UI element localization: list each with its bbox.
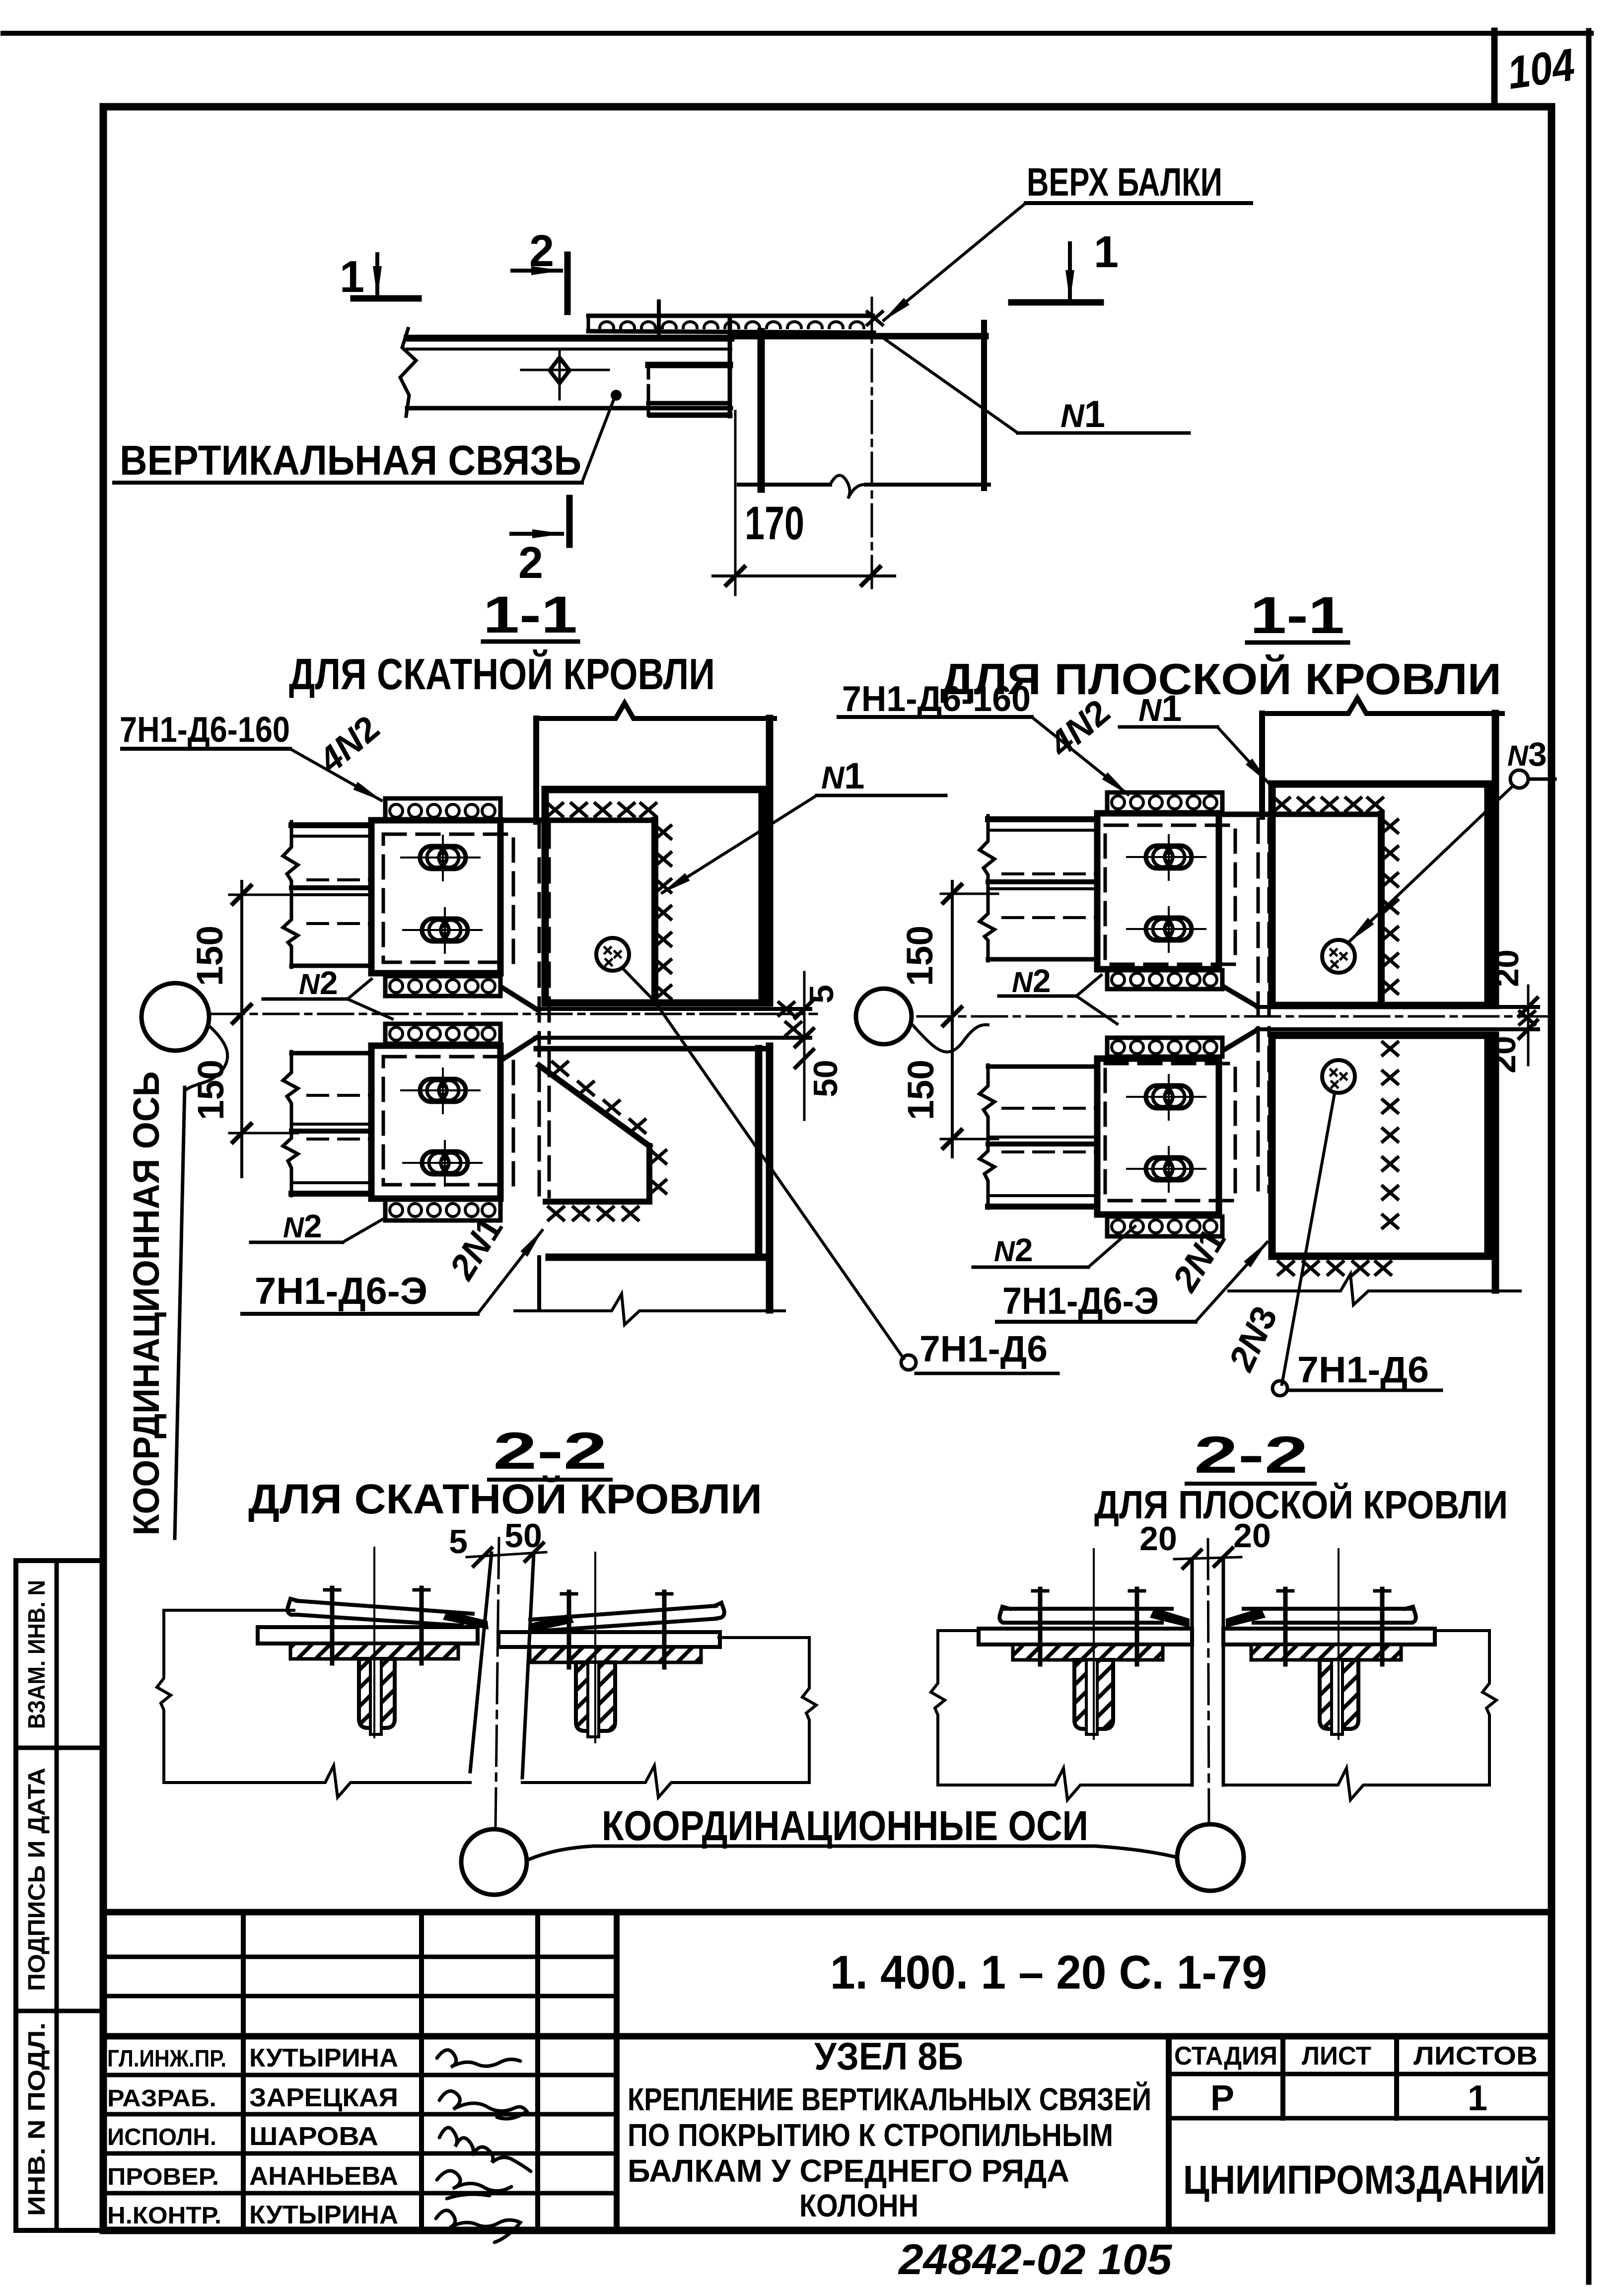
- channel top flange thin R: [988, 829, 1097, 832]
- channel bottom flange thin R: [988, 1194, 1097, 1197]
- beam left edge dashed pair R: [1258, 819, 1269, 1192]
- svg-text:ПРОВЕР.: ПРОВЕР.: [107, 2164, 219, 2190]
- left stamp strip divider h1: [16, 1746, 103, 1750]
- beam left edge upper solid R: [1259, 714, 1265, 817]
- dim line left 150: [240, 881, 243, 1177]
- signature 3: [439, 2128, 531, 2171]
- beam left edge upper solid: [533, 718, 539, 822]
- sheet right outer edge: [1586, 31, 1592, 2282]
- N2 lower underline R: [973, 1266, 1088, 1269]
- svg-text:150: 150: [189, 926, 230, 986]
- unit inner dashed rect low R: [1105, 1064, 1235, 1201]
- vertikalnaya svyaz underline: [114, 481, 582, 485]
- gusset lower vertical: [646, 1146, 652, 1201]
- top pad: [385, 798, 500, 819]
- center axis line P: [1208, 1539, 1209, 1823]
- weld xx column along gusset edge low R: [1383, 1042, 1398, 1228]
- verkh balki underline: [1026, 201, 1251, 205]
- svg-text:7Н1-Д6: 7Н1-Д6: [919, 1328, 1048, 1369]
- svg-text:N2: N2: [283, 1208, 322, 1244]
- channel left cut low: [283, 1052, 298, 1196]
- svg-text:ИСПОЛН.: ИСПОЛН.: [107, 2124, 216, 2150]
- 7N1-D6-E leader: [478, 1230, 542, 1314]
- svg-text:СТАДИЯ: СТАДИЯ: [1174, 2042, 1277, 2071]
- bottom plate r: [498, 1632, 720, 1647]
- weld circle leader to corner: [622, 968, 654, 1001]
- bottom break line R: [1229, 1274, 1520, 1305]
- svg-text:N2: N2: [1012, 962, 1051, 999]
- channel mid flange thick: [291, 885, 371, 890]
- tick 50 bottom: [795, 1050, 813, 1068]
- svg-text:N1: N1: [1060, 393, 1105, 435]
- rib centerline Pr: [1338, 1549, 1340, 1739]
- bearing pad hatched: [290, 1644, 458, 1659]
- T-rib stem hatched: [359, 1659, 395, 1728]
- unit block rect R: [1097, 813, 1219, 969]
- N2 lower underline: [251, 1241, 343, 1244]
- top pad scallops: [390, 804, 495, 817]
- channel mid flange thin low: [291, 1123, 371, 1126]
- svg-text:20: 20: [1233, 1517, 1271, 1555]
- 7N1-D6-160 underline right: [839, 715, 1032, 719]
- svg-text:ДЛЯ СКАТНОЙ КРОВЛИ: ДЛЯ СКАТНОЙ КРОВЛИ: [248, 1476, 762, 1522]
- left end vertical with break: [157, 1610, 171, 1783]
- T-rib stem hatched Pr: [1320, 1660, 1358, 1729]
- svg-text:Н.КОНТР.: Н.КОНТР.: [107, 2203, 221, 2229]
- svg-text:20: 20: [1488, 949, 1526, 987]
- gusset top edge line: [499, 818, 655, 823]
- long leader to 7N1-D6 label: [654, 1001, 904, 1358]
- svg-text:ЛИСТ: ЛИСТ: [1302, 2042, 1371, 2071]
- channel bottom line: [291, 964, 371, 968]
- 7N1-D6 pointer circle: [901, 1355, 916, 1370]
- svg-text:150: 150: [899, 926, 940, 986]
- center gap cut line left: [470, 1553, 492, 1772]
- gusset tongue mid: [648, 401, 730, 406]
- bolt b top tick: [414, 1588, 429, 1592]
- beam web bottom line R: [1257, 1027, 1538, 1031]
- right ext top line P: [1435, 1629, 1489, 1632]
- gusset top edge line R: [1222, 812, 1381, 817]
- leader from N3 lower circle to bottom label: [1282, 1093, 1335, 1384]
- svg-text:1: 1: [1094, 227, 1119, 277]
- bolt line d: [662, 1592, 667, 1667]
- svg-text:ПО ПОКРЫТИЮ К СТРОПИЛЬНЫМ: ПО ПОКРЫТИЮ К СТРОПИЛЬНЫМ: [628, 2117, 1113, 2153]
- channel mid flange thin: [291, 893, 371, 896]
- svg-text:ЛИСТОВ: ЛИСТОВ: [1413, 2042, 1538, 2071]
- column bottom line right part: [866, 483, 989, 487]
- column left edge: [758, 332, 765, 489]
- bolt Pa top tick: [1033, 1589, 1048, 1593]
- LOWER PLATE R: [1272, 1035, 1488, 1256]
- lower plate bottom edge: [549, 1254, 767, 1261]
- N1 left view leader: [662, 795, 817, 893]
- title block mid line: [103, 2033, 1552, 2040]
- 7N1-D6-160 leader left: [290, 749, 381, 800]
- left stamp strip box: [16, 1561, 103, 2230]
- gusset tongue left edge solid: [647, 387, 650, 415]
- bottom plate P: [979, 1629, 1192, 1644]
- 7N1-D6-160 underline left: [122, 747, 290, 751]
- channel hidden dash Ra: [1003, 872, 1097, 875]
- N2 lower leader R: [1088, 1226, 1135, 1267]
- right end vertical with break P: [1483, 1631, 1496, 1785]
- title block col line 3: [535, 1912, 540, 2230]
- bolt slot low lower R: [1127, 1147, 1205, 1192]
- ext line top R: [941, 893, 998, 895]
- bolt Pd top tick: [1375, 1589, 1390, 1593]
- tick 5 bottom: [795, 1029, 813, 1047]
- unit block rect low R: [1097, 1059, 1219, 1215]
- svg-text:ПОДПИСЬ И ДАТА: ПОДПИСЬ И ДАТА: [24, 1768, 50, 1991]
- N2 upper leader a: [348, 979, 371, 999]
- title block col line 1: [241, 1912, 246, 2230]
- ext line top: [229, 894, 298, 896]
- title block top line: [103, 1909, 1552, 1916]
- beam right edge lower R: [1492, 1035, 1499, 1290]
- dim tick 5: [474, 1548, 492, 1566]
- cover plate left hook P: [999, 1607, 1010, 1623]
- channel mid flange thin R: [988, 887, 1097, 890]
- channel left cut low R: [980, 1065, 994, 1208]
- N2 upper underline R: [999, 995, 1076, 998]
- cover plate right hook r: [715, 1603, 724, 1619]
- tick 20 top R: [1519, 998, 1537, 1016]
- main axis dash-dot: [209, 1013, 817, 1015]
- cover plate left hook: [287, 1599, 298, 1615]
- section marker 2 bottom: arrow: [511, 532, 562, 536]
- axis circle 2-2L: [461, 1829, 527, 1895]
- T-rib stem hatched r: [576, 1662, 615, 1731]
- svg-text:N1: N1: [821, 755, 864, 796]
- vertikalnaya svyaz leader: [582, 397, 615, 483]
- sheet top edge line: [3, 31, 1591, 36]
- channel mid flange thick low: [291, 1129, 371, 1134]
- weld x along bevel: [553, 1062, 645, 1133]
- title block stadia header underline: [1169, 2072, 1552, 2076]
- web bend upper R: [1224, 987, 1258, 1007]
- cover plate top line: [297, 1601, 473, 1614]
- brace bar bottom edge: [407, 406, 731, 411]
- svg-text:50: 50: [807, 1060, 845, 1097]
- svg-text:КУТЫРИНА: КУТЫРИНА: [249, 2044, 398, 2073]
- deck strip left cap: [587, 316, 590, 331]
- dim connect line: [467, 1552, 546, 1557]
- svg-text:N2: N2: [299, 964, 338, 1001]
- dim 20-20 vertical line R: [1527, 986, 1530, 1065]
- channel hidden dash a: [308, 878, 371, 881]
- tick 150 axis: [233, 1005, 251, 1023]
- section marker 1 right: arrow: [1068, 243, 1072, 300]
- N2 upper leader Rb: [1076, 996, 1117, 1024]
- signature 5: [436, 2211, 520, 2242]
- bolt c top tick: [562, 1592, 576, 1596]
- top pad R: [1107, 792, 1222, 812]
- svg-text:1-1: 1-1: [483, 586, 577, 644]
- signature 1: [437, 2050, 520, 2067]
- koordinatsionnye osi underline: [594, 1845, 1095, 1848]
- dim 170 tick right: [862, 567, 880, 585]
- svg-text:ИНВ. N ПОДЛ.: ИНВ. N ПОДЛ.: [24, 2022, 50, 2216]
- left ext top line P: [938, 1629, 979, 1632]
- ext line bottom R: [941, 1138, 998, 1141]
- bolt diamond symbol: [550, 357, 569, 383]
- channel mid flange thick R: [988, 879, 1097, 884]
- channel mid flange thick low R: [988, 1142, 1097, 1146]
- gusset tongue bottom: [650, 413, 730, 418]
- channel top flange thick R: [988, 816, 1097, 822]
- bottom pad: [385, 976, 500, 996]
- top pad low scallops: [390, 1027, 495, 1040]
- N2 upper leader Ra: [1076, 975, 1101, 996]
- weld xx column along gusset edge R: [1383, 820, 1398, 994]
- svg-text:50: 50: [504, 1517, 542, 1555]
- verkh balki leader: [884, 203, 1026, 320]
- svg-text:2: 2: [529, 226, 554, 276]
- title block col line 4: [614, 1912, 620, 2230]
- left end vertical with break P: [931, 1631, 945, 1785]
- right ext top line: [719, 1636, 809, 1639]
- bolt slot upper R: [1127, 835, 1205, 880]
- 7N1-D6 pointer circle R: [1272, 1381, 1287, 1396]
- title 1-1 left underline: [483, 640, 578, 644]
- cover plate right bent tip: [443, 1611, 489, 1630]
- bolt slot upper: [401, 836, 480, 880]
- bolt slot low lower: [403, 1141, 482, 1186]
- unit block rect: [371, 820, 500, 973]
- column top / beam top edge: [731, 333, 986, 340]
- weld x at web right end R: [1520, 1011, 1535, 1024]
- svg-text:1: 1: [1468, 2078, 1487, 2118]
- tick 5 top: [795, 1000, 813, 1018]
- main axis dash-dot R: [918, 1015, 1550, 1018]
- brace bar top inner line: [407, 348, 731, 351]
- beam web below plate left: [537, 1257, 541, 1310]
- svg-text:N3: N3: [1507, 735, 1547, 773]
- bottom pad scallops R: [1112, 973, 1217, 986]
- title 2-2 left underline: [489, 1478, 611, 1482]
- svg-text:ШАРОВА: ШАРОВА: [249, 2122, 378, 2151]
- column bottom break squiggle: [830, 475, 866, 499]
- top pad low: [385, 1024, 500, 1044]
- 7N1-D6-E underline R: [997, 1320, 1196, 1324]
- channel bottom flange thick: [291, 1191, 371, 1197]
- channel mid flange thin low R: [988, 1136, 1097, 1139]
- brace bar top edge: [407, 335, 731, 342]
- channel top flange thick: [291, 822, 371, 828]
- bottom line right with zigzag P: [1226, 1768, 1489, 1800]
- weld xx column along gusset edge: [656, 826, 671, 999]
- N2 upper underline: [263, 998, 348, 1001]
- title block stamp col line 5: [1166, 2036, 1172, 2230]
- svg-text:АНАНЬЕВА: АНАНЬЕВА: [249, 2162, 398, 2191]
- tick 20 bottom R: [1519, 1020, 1537, 1038]
- bearing plate N1 upper R: [1272, 784, 1488, 1005]
- bottom pad R: [1107, 970, 1222, 989]
- axis circle 2-2P: [1177, 1824, 1244, 1891]
- signature 2: [439, 2091, 527, 2119]
- channel hidden dash Rd: [1003, 1107, 1097, 1110]
- 7N1-D6 underline R: [1287, 1389, 1441, 1392]
- tick 150 axis R: [943, 1007, 961, 1025]
- deck scallops: [600, 322, 864, 328]
- svg-text:КУТЫРИНА: КУТЫРИНА: [249, 2201, 398, 2229]
- tick 150 bottom: [233, 1124, 251, 1142]
- beam top edge with break R: [1262, 698, 1502, 714]
- left stamp strip divider h2: [16, 2009, 103, 2013]
- bolt line b: [420, 1588, 424, 1663]
- bolt a top tick: [325, 1588, 340, 1592]
- N3 label circle: [1510, 770, 1528, 788]
- axis circle squiggle leader: [187, 1025, 227, 1089]
- weld circle symbol N3 upper: [1322, 940, 1355, 973]
- cover plate bottom line r: [539, 1619, 716, 1631]
- svg-text:ВЗАМ. ИНВ. N: ВЗАМ. ИНВ. N: [24, 1580, 50, 1729]
- title block row line b: [103, 1994, 617, 1999]
- channel top flange thin: [291, 835, 371, 838]
- bottom line left with zigzag P: [938, 1768, 1189, 1800]
- title block name row 4 line: [103, 2191, 617, 2196]
- center gap cut line right P: [1222, 1557, 1225, 1785]
- svg-text:ЗАРЕЦКАЯ: ЗАРЕЦКАЯ: [249, 2083, 398, 2112]
- svg-text:N2: N2: [994, 1231, 1033, 1268]
- column axis dash-dot: [871, 298, 873, 595]
- bolt d top tick: [657, 1592, 672, 1596]
- title 1-1 right underline: [1247, 641, 1348, 645]
- svg-text:2-2: 2-2: [493, 1422, 607, 1480]
- section marker 2 top: bar: [565, 255, 571, 312]
- bearing pad hatched Pr: [1251, 1644, 1401, 1660]
- gusset lower bottom: [546, 1199, 649, 1205]
- brace bar right end cap: [728, 318, 732, 416]
- weld x marks at web right end: [779, 1002, 794, 1015]
- title block stadia col line 7: [1394, 2036, 1399, 2118]
- svg-text:1: 1: [340, 252, 364, 302]
- rib centerline r: [594, 1553, 596, 1742]
- channel hidden dash Rb: [1003, 916, 1097, 919]
- cover plate bottom line P: [1004, 1621, 1162, 1625]
- cover plate left bent tip r: [528, 1614, 574, 1633]
- bottom line right with zigzag: [522, 1766, 809, 1797]
- cover plate bottom line: [297, 1615, 462, 1626]
- brace bar left break zigzag: [400, 329, 416, 416]
- svg-text:150: 150: [900, 1060, 941, 1120]
- beam web bottom line: [535, 1036, 810, 1040]
- svg-text:N1: N1: [1138, 688, 1182, 729]
- weld x at deck end: [867, 312, 882, 325]
- T-rib white slot P: [1086, 1660, 1097, 1734]
- bolt Pc top tick: [1278, 1589, 1293, 1593]
- center axis line: [495, 1538, 499, 1828]
- 7N1-D6 underline: [916, 1372, 1058, 1375]
- web bend lower: [501, 1038, 536, 1060]
- svg-text:5: 5: [449, 1523, 468, 1561]
- T-rib white slot: [370, 1659, 381, 1734]
- svg-text:КООРДИНАЦИОННЫЕ ОСИ: КООРДИНАЦИОННЫЕ ОСИ: [602, 1802, 1088, 1849]
- weld x row below gusset bottom: [549, 1207, 638, 1220]
- N1 right view leader: [1217, 727, 1269, 784]
- weld x along gusset lower vertical: [651, 1150, 666, 1193]
- bolt slot low upper: [401, 1069, 480, 1113]
- svg-text:20: 20: [1139, 1520, 1177, 1558]
- bearing pad hatched r: [530, 1647, 701, 1662]
- web bend upper: [501, 987, 536, 1009]
- bolt line a: [330, 1588, 335, 1663]
- right end vertical with break: [802, 1638, 816, 1783]
- svg-text:ВЕРХ БАЛКИ: ВЕРХ БАЛКИ: [1027, 160, 1222, 204]
- bottom pad low scallops R: [1112, 1220, 1217, 1233]
- bottom plate Pr: [1223, 1629, 1435, 1644]
- tick 150 bottom R: [943, 1130, 961, 1148]
- bottom pad low R: [1107, 1216, 1222, 1236]
- weld xx row along plate top: [548, 803, 656, 816]
- dim 5-50 vertical line: [803, 972, 806, 1120]
- left ext top line: [164, 1609, 294, 1612]
- channel hidden dash d: [308, 1094, 371, 1097]
- beam right edge upper R: [1492, 714, 1499, 1005]
- unit inner dashed rect low: [383, 1057, 513, 1185]
- section marker 1 left: bar: [353, 295, 419, 302]
- channel hidden dash b: [308, 922, 371, 925]
- svg-text:1. 400. 1 – 20 С. 1-79: 1. 400. 1 – 20 С. 1-79: [830, 1946, 1267, 1999]
- dim tick 20a: [1183, 1550, 1201, 1568]
- gusset vertical edge: [651, 820, 658, 1001]
- N1 left view underline: [817, 794, 946, 797]
- bearing plate N1 upper: [545, 789, 762, 1003]
- N2 lower leader: [343, 1219, 382, 1242]
- N3 label underline: [1528, 778, 1555, 781]
- lower plate right edge: [755, 1049, 763, 1257]
- weld x row below plate bottom R: [1278, 1262, 1391, 1275]
- svg-text:ДЛЯ СКАТНОЙ КРОВЛИ: ДЛЯ СКАТНОЙ КРОВЛИ: [289, 649, 715, 699]
- svg-text:7Н1-Д6: 7Н1-Д6: [1297, 1349, 1429, 1390]
- cover plate top line P: [1004, 1607, 1172, 1611]
- channel bottom line R: [988, 957, 1097, 962]
- channel left cut with breaks R: [980, 816, 994, 961]
- bolt line Pd: [1380, 1589, 1385, 1664]
- unit block rect low: [371, 1046, 500, 1199]
- left stamp strip divider vertical: [55, 1561, 59, 2230]
- T-rib stem hatched P: [1074, 1660, 1113, 1729]
- cover plate bottom line Pr: [1254, 1621, 1412, 1625]
- svg-text:7Н1-Д6-Э: 7Н1-Д6-Э: [255, 1270, 427, 1312]
- deck strip top line: [588, 314, 873, 318]
- svg-text:БАЛКАМ У СРЕДНЕГО РЯДА: БАЛКАМ У СРЕДНЕГО РЯДА: [628, 2153, 1069, 2189]
- title block col line 2: [419, 1912, 424, 2230]
- cover plate right hook Pr: [1406, 1607, 1416, 1623]
- svg-text:2-2: 2-2: [1194, 1426, 1308, 1484]
- beam web top line: [535, 1007, 810, 1011]
- bottom break line: [515, 1294, 784, 1325]
- N1 right view underline: [1120, 725, 1217, 729]
- title block stadia col line 6: [1280, 2036, 1285, 2118]
- bottom pad low: [385, 1200, 500, 1220]
- beam top edge with break: [536, 703, 775, 718]
- dim 170 line: [713, 574, 895, 577]
- channel bottom flange thick R: [988, 1204, 1097, 1210]
- N3 leader from upper circle to label: [1349, 786, 1512, 941]
- bolt line Pb: [1135, 1589, 1139, 1664]
- dim 170 extension line: [734, 411, 737, 595]
- weld circle symbol N3 lower: [1322, 1060, 1355, 1093]
- beam web top line R: [1257, 1005, 1538, 1009]
- weld circle symbol: [596, 938, 629, 971]
- tick 150 top: [233, 886, 251, 904]
- svg-text:7Н1-Д6-Э: 7Н1-Д6-Э: [1002, 1280, 1159, 1322]
- cover plate top line r: [530, 1606, 716, 1620]
- gusset tongue top: [648, 362, 730, 368]
- svg-text:ВЕРТИКАЛЬНАЯ СВЯЗЬ: ВЕРТИКАЛЬНАЯ СВЯЗЬ: [120, 437, 581, 484]
